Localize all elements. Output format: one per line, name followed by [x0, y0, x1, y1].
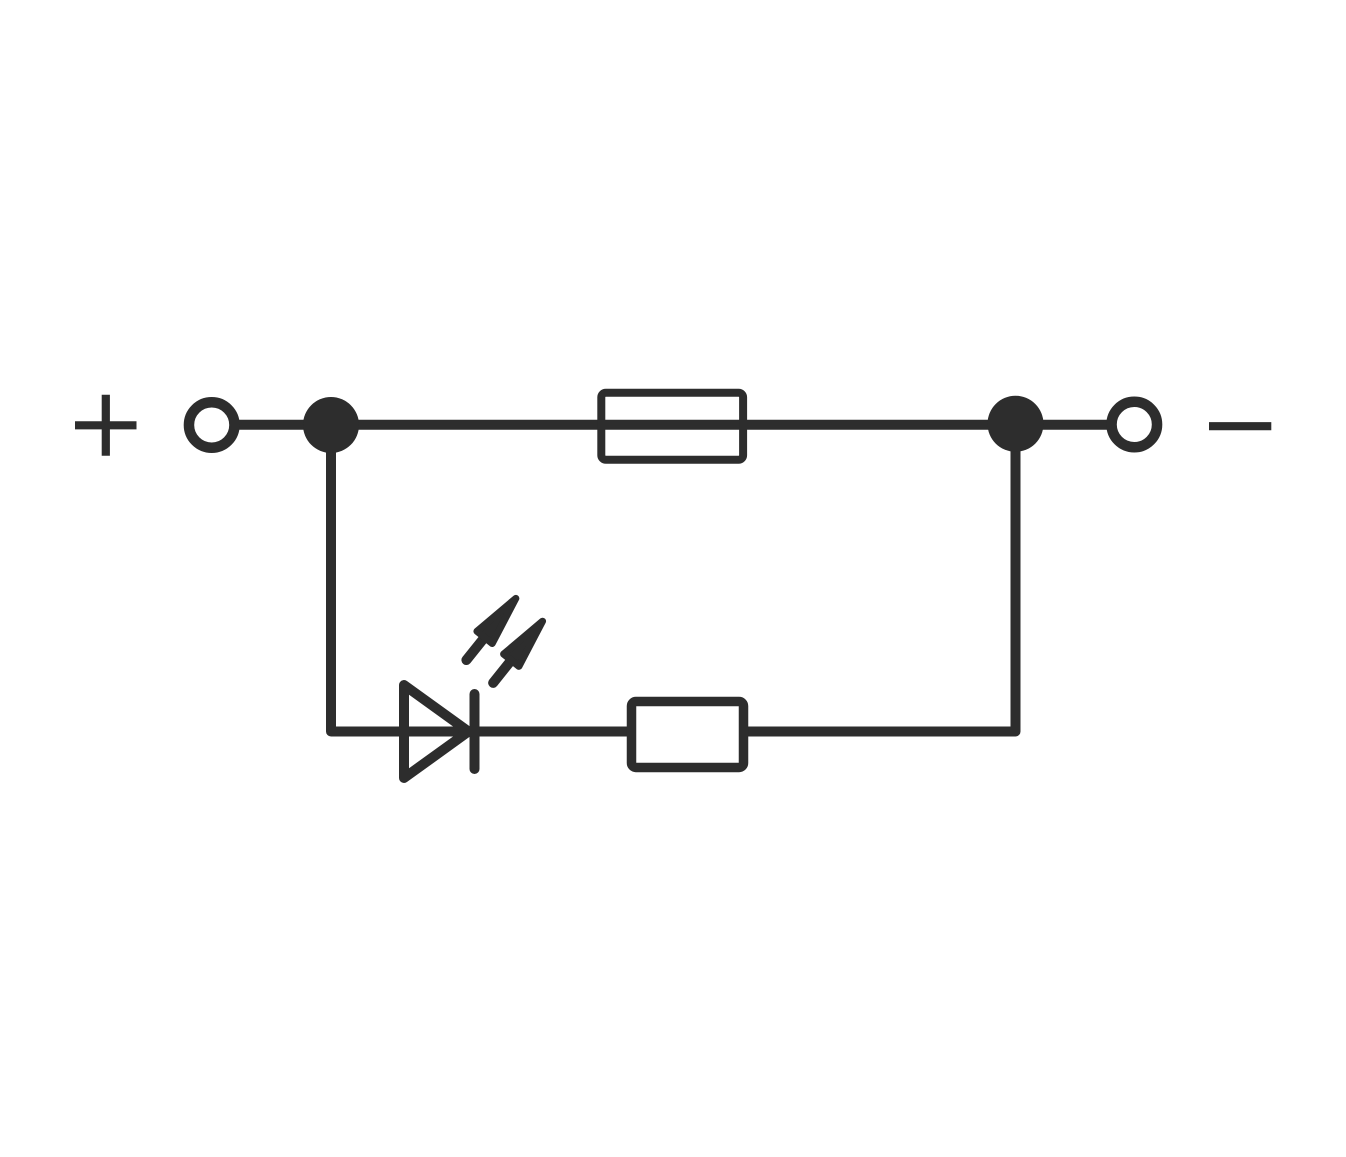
LED D1 cathode bar	[470, 694, 480, 769]
wire: top rail from left terminal to right terminal	[212, 420, 1135, 430]
LED D1 triangle (anode)	[404, 685, 469, 778]
LED emission arrow 2	[485, 615, 550, 689]
junction dot right	[988, 396, 1044, 452]
terminal circle right (- output)	[1112, 402, 1158, 448]
resistor R1 (empty rectangle on bottom branch)	[632, 702, 744, 768]
wire: bottom branch loop from left junction down, across, and up to right junction	[331, 420, 1016, 732]
fuse F1 (rectangle with wire through it)	[601, 393, 743, 460]
minus polarity symbol	[1209, 422, 1271, 430]
junction dot left	[303, 397, 359, 453]
LED emission arrow 1	[459, 592, 524, 666]
plus polarity symbol	[75, 395, 137, 456]
terminal circle left (+ input)	[189, 402, 235, 448]
